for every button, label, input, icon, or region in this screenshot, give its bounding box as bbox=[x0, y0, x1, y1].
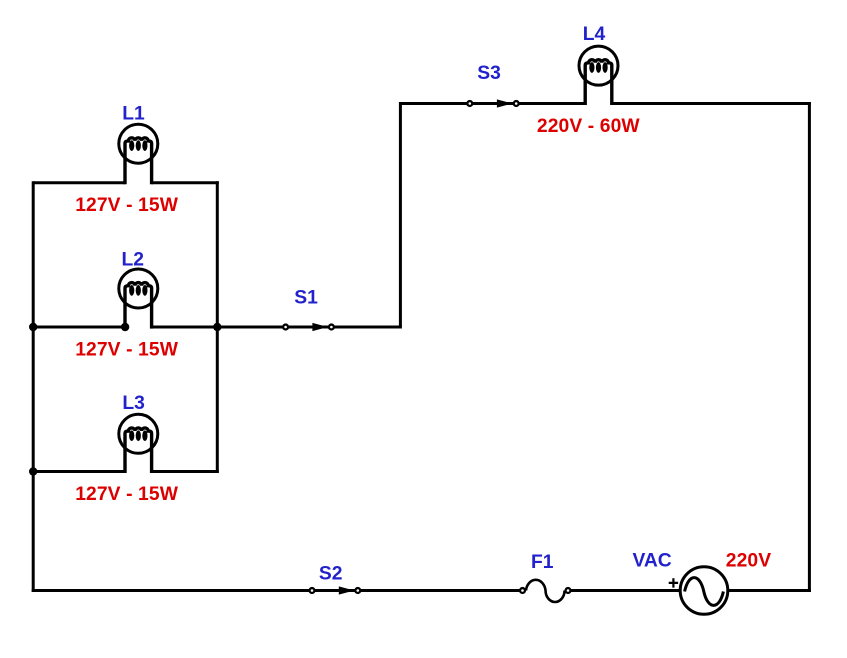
node: junction left bus / middle row bbox=[29, 323, 37, 331]
node: junction L2 left lead / middle row bbox=[121, 323, 129, 331]
svg-text:L2: L2 bbox=[121, 250, 144, 271]
svg-text:S3: S3 bbox=[477, 63, 501, 84]
switch S2 bbox=[310, 586, 361, 594]
svg-text:220V: 220V bbox=[726, 550, 771, 571]
node: junction left bus / L3 edge bbox=[29, 467, 37, 475]
svg-text:S2: S2 bbox=[319, 563, 343, 584]
lamp L2 bbox=[119, 269, 158, 329]
wire: top row right of L4 bbox=[612, 102, 811, 105]
svg-text:F1: F1 bbox=[531, 552, 554, 573]
wire: right vertical bus bbox=[808, 102, 811, 592]
svg-text:L4: L4 bbox=[583, 24, 606, 45]
wire: L3 branch bottom edge right bbox=[152, 470, 219, 473]
wire: middle row right segment through S1 bbox=[152, 326, 402, 329]
svg-text:127V - 15W: 127V - 15W bbox=[75, 340, 179, 361]
wire: L3 branch bottom edge left bbox=[33, 470, 125, 473]
svg-text:127V - 15W: 127V - 15W bbox=[75, 195, 179, 216]
wire: L1 branch top edge right bbox=[152, 181, 219, 184]
switch S1 bbox=[283, 323, 334, 331]
fuse F1 bbox=[520, 580, 570, 602]
wire: vertical riser to top row bbox=[399, 102, 402, 327]
svg-text:L3: L3 bbox=[122, 393, 145, 414]
svg-text:L1: L1 bbox=[122, 103, 145, 124]
wire: bottom row left of fuse bbox=[32, 589, 521, 592]
svg-text:S1: S1 bbox=[294, 287, 318, 308]
lamp L1 bbox=[119, 124, 158, 184]
lamp L4 bbox=[579, 46, 618, 105]
wire: middle row left segment bbox=[33, 326, 125, 329]
svg-text:127V - 15W: 127V - 15W bbox=[75, 484, 179, 505]
wire: top row left of L4 bbox=[400, 102, 585, 105]
wire: bottom row right of fuse bbox=[570, 589, 811, 592]
wire: left vertical bus bbox=[32, 181, 35, 592]
lamp L3 bbox=[119, 414, 158, 473]
node: junction inner vertical / middle row bbox=[213, 323, 221, 331]
wire: inner right vertical bbox=[216, 181, 219, 473]
source VAC bbox=[669, 567, 728, 615]
switch S3 bbox=[467, 99, 518, 107]
svg-text:220V - 60W: 220V - 60W bbox=[537, 116, 641, 137]
wire: L1 branch top edge left bbox=[33, 181, 125, 184]
svg-text:VAC: VAC bbox=[632, 550, 671, 571]
